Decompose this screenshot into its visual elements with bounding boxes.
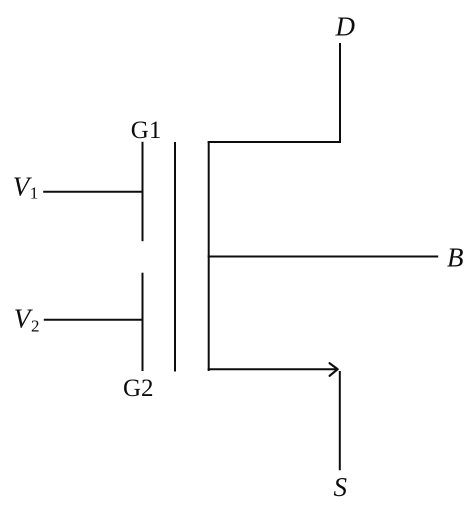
svg-text:2: 2 (31, 316, 40, 335)
svg-text:G1: G1 (131, 117, 162, 144)
wire bulk B (208, 256, 439, 258)
gate G1 electrode segment (142, 142, 144, 241)
wire source vertical (339, 371, 341, 470)
svg-text:B: B (447, 242, 464, 272)
wire drain horizontal (208, 141, 341, 143)
source arrow head (330, 363, 338, 376)
wire V1 to G1 (43, 191, 143, 193)
channel line (208, 141, 210, 371)
transistor M1 dual-gate MOSFET body (43, 43, 438, 470)
svg-text:D: D (335, 11, 356, 41)
svg-text:1: 1 (30, 184, 39, 203)
wire source horizontal (208, 368, 337, 370)
gate G2 electrode segment (142, 273, 144, 371)
wire V2 to G2 (44, 319, 144, 321)
svg-text:G2: G2 (123, 375, 154, 402)
wire drain vertical (339, 43, 341, 142)
svg-text:S: S (334, 472, 348, 502)
gate insulator line (174, 142, 176, 372)
